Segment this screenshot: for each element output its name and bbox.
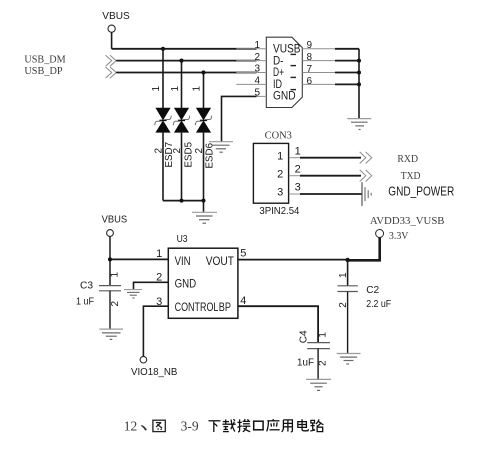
wire VOUT to AVDD33 — [238, 259, 348, 261]
capacitor C2 pin2 label — [338, 302, 349, 308]
pin 2 label ESD6 — [194, 148, 205, 154]
node VBUS top label — [102, 10, 130, 22]
label ESD5 — [183, 142, 194, 168]
svg-text:1: 1 — [338, 272, 349, 278]
svg-text:VIN: VIN — [175, 256, 191, 268]
wire pin8 to shield bus — [335, 60, 359, 62]
caption char dian (electric) — [298, 419, 309, 431]
regulator U3 label — [177, 234, 188, 245]
svg-text:3-9: 3-9 — [181, 419, 199, 434]
pin stub 5 left — [236, 95, 266, 97]
node VBUS bottom label — [102, 214, 128, 226]
label ESD7 — [164, 142, 175, 168]
pin number 4 — [254, 76, 260, 87]
svg-text:1: 1 — [295, 145, 301, 157]
wire CON3 pin3 GND_POWER — [289, 193, 362, 195]
pin number 1 — [254, 40, 260, 51]
svg-text:ESD5: ESD5 — [183, 142, 194, 168]
svg-text:VIO18_NB: VIO18_NB — [131, 366, 177, 378]
pin 2 label ESD7 — [154, 148, 165, 154]
junction dot VBUS/C3 — [108, 257, 112, 261]
label C3 — [80, 280, 93, 292]
svg-text:1: 1 — [170, 86, 181, 92]
svg-text:USB_DM: USB_DM — [24, 55, 66, 66]
pin number 3 — [254, 64, 260, 75]
pin name dash 6 — [291, 89, 297, 91]
wire ESD6 vertical top — [203, 73, 205, 109]
junction dot ESD6 bottom — [202, 199, 206, 203]
wire U3 CONTROL pin3 to VIO18_NB — [143, 306, 168, 356]
wire USB_DM to pin2 — [116, 60, 256, 62]
svg-text:2: 2 — [318, 360, 329, 366]
wire CON3 pin2 TXD — [289, 175, 361, 177]
net label VIO18_NB — [131, 366, 177, 378]
wire C2 top — [347, 260, 349, 286]
svg-text:BP: BP — [219, 302, 231, 314]
ground U3 GND — [124, 290, 142, 298]
svg-text:7: 7 — [307, 64, 313, 75]
svg-text:VBUS: VBUS — [102, 10, 130, 22]
pin stub 4 left — [236, 83, 266, 85]
CON3 pin number 2 — [295, 163, 301, 175]
svg-text:1: 1 — [192, 86, 203, 92]
pin name GND — [273, 91, 296, 103]
caption char jie (connect) — [237, 419, 250, 432]
node AVDD33 terminal circle — [376, 230, 384, 238]
wire ESD7 vertical top — [162, 49, 164, 108]
svg-text:1: 1 — [277, 151, 283, 163]
ground shield bus — [347, 119, 371, 130]
CON3 pin name 2 — [277, 169, 283, 181]
label C2 value 2.2 uF — [366, 298, 391, 310]
pin stub 1 left — [236, 48, 266, 50]
caption char ying (apply) — [267, 419, 280, 431]
pin stub 8 right — [302, 60, 336, 62]
port chevron USB_DM — [106, 55, 117, 66]
U3 pin name BP — [219, 302, 231, 314]
caption text 12, — [124, 419, 138, 434]
svg-text:ESD7: ESD7 — [164, 142, 175, 168]
caption char zai (carry) — [222, 419, 235, 431]
U3 pin number 2 — [156, 272, 162, 284]
wire ESD5 vertical bottom — [181, 133, 183, 201]
capacitor C3 pin2 label — [110, 301, 121, 307]
wire ESD common bottom horizontal — [163, 200, 204, 202]
pin number 2 — [254, 52, 260, 63]
wire VBUS vertical from terminal — [111, 32, 113, 49]
svg-text:1uF: 1uF — [297, 356, 314, 368]
junction dot VBUS / ESD7 — [161, 47, 165, 51]
capacitor C4 pin2 label — [318, 360, 329, 366]
svg-text:1: 1 — [151, 86, 162, 92]
svg-text:RXD: RXD — [397, 154, 418, 165]
connector CON3 label — [265, 131, 292, 142]
wire U3 GND pin2 — [134, 282, 169, 289]
ground C2 — [337, 354, 361, 365]
svg-text:3PIN2.54: 3PIN2.54 — [259, 205, 299, 217]
port chevron USB_DP — [106, 67, 117, 78]
svg-text:12: 12 — [124, 419, 138, 434]
capacitor C3 pin1 label — [109, 272, 120, 278]
svg-text:C4: C4 — [297, 330, 309, 343]
svg-text:1 uF: 1 uF — [76, 296, 94, 308]
wire VBUS horizontal to USB pin1 — [112, 48, 257, 50]
svg-text:U3: U3 — [177, 234, 188, 245]
caption ideographic comma — [141, 425, 147, 431]
capacitor C4 label rotated — [297, 330, 309, 343]
pin name D+ — [273, 67, 284, 79]
svg-text:D+: D+ — [273, 67, 284, 79]
wire C4 bottom — [317, 349, 319, 380]
wire ESD5 vertical top — [181, 61, 183, 108]
pin stub 9 right — [302, 48, 336, 50]
U3 pin number 1 — [156, 248, 162, 260]
svg-text:VUSB: VUSB — [273, 43, 301, 55]
svg-text:4: 4 — [240, 295, 246, 307]
port label RXD — [397, 154, 418, 165]
svg-text:9: 9 — [307, 40, 313, 51]
svg-text:1: 1 — [109, 272, 120, 278]
wire pin6 to shield bus — [335, 83, 359, 85]
U3 pin number 5 — [240, 248, 246, 260]
pin name D- — [273, 55, 284, 67]
pin 2 label ESD5 — [172, 148, 183, 154]
label C3 value 1 uF — [76, 296, 94, 308]
port USB_DM label — [24, 55, 66, 66]
svg-text:VOUT: VOUT — [206, 256, 234, 268]
junction dot C2 — [345, 258, 349, 262]
svg-text:CONTROL: CONTROL — [175, 302, 219, 314]
caption char yong (use) — [282, 420, 293, 432]
svg-text:6: 6 — [307, 76, 313, 87]
svg-text:1: 1 — [254, 40, 260, 51]
wire C2 bottom — [347, 292, 349, 354]
pin name ID — [273, 79, 282, 91]
pin 1 label ESD7 — [151, 86, 162, 92]
capacitor C4 plates — [307, 343, 330, 349]
wire ESD6 vertical bottom — [203, 133, 205, 212]
capacitor C2 plates — [337, 286, 357, 292]
svg-text:5: 5 — [240, 248, 246, 260]
U3 pin name CONTROL — [175, 302, 219, 314]
caption char xia (down) — [209, 421, 221, 432]
svg-text:C2: C2 — [366, 284, 379, 296]
capacitor C2 pin1 label — [338, 272, 349, 278]
port label TXD — [401, 171, 421, 182]
caption char lu (road) — [310, 419, 323, 431]
junction dot D- / ESD5 — [179, 59, 183, 63]
capacitor C3 plates — [99, 286, 121, 291]
pin number 5 — [254, 88, 260, 99]
ground ESD common — [192, 212, 217, 223]
svg-text:USB_DP: USB_DP — [24, 66, 62, 77]
pin name VUSB — [273, 43, 301, 55]
U3 pin name GND — [175, 279, 197, 291]
svg-text:2.2 uF: 2.2 uF — [366, 298, 391, 310]
pin name dash 7 — [291, 76, 297, 78]
regulator U3 box — [168, 248, 238, 318]
junction dot D+ / ESD6 — [201, 70, 205, 74]
pin name dash 9 — [291, 53, 297, 55]
svg-text:2: 2 — [110, 301, 121, 307]
pin number 8 — [307, 52, 313, 63]
wire USB_DP to pin3 — [116, 72, 256, 74]
wire VBUS bottom vertical — [109, 236, 111, 285]
wire shield bus vertical — [358, 49, 360, 119]
pin stub 6 right — [302, 83, 336, 85]
U3 pin number 3 — [156, 296, 162, 308]
diode ESD6 bidirectional TVS — [195, 108, 211, 133]
pin number 6 — [307, 76, 313, 87]
svg-text:CON3: CON3 — [265, 131, 292, 142]
pin stub 3 left — [236, 72, 266, 74]
CON3 pin number 3 — [295, 181, 301, 193]
connector USB J1 box — [266, 37, 302, 107]
junction dot bus pin8 — [357, 59, 361, 63]
wire ESD7 vertical bottom — [162, 133, 164, 201]
caption text 3-9 — [181, 419, 199, 434]
port chevron TXD — [360, 170, 372, 182]
wire CON3 pin1 RXD — [289, 157, 361, 159]
svg-text:C3: C3 — [80, 280, 93, 292]
svg-text:2: 2 — [254, 52, 260, 63]
wire pin9 to shield bus — [335, 48, 359, 50]
pin number 9 — [307, 40, 313, 51]
wire pin5 GND to ground — [222, 96, 257, 141]
U3 pin name VIN — [175, 256, 191, 268]
pin name dash 8 — [291, 65, 297, 67]
svg-text:GND: GND — [273, 91, 296, 103]
wire AVDD33 corner — [347, 237, 380, 260]
ground C3 — [100, 329, 124, 339]
port chevron RXD — [360, 152, 372, 164]
junction dot bus pin6 — [357, 82, 361, 86]
connector CON3 box — [253, 143, 288, 203]
U3 pin number 4 — [240, 295, 246, 307]
caption char kou (mouth) — [254, 421, 263, 430]
net label GND_POWER — [388, 184, 454, 199]
svg-text:AVDD33_VUSB: AVDD33_VUSB — [370, 215, 445, 227]
pin 1 label ESD6 — [192, 86, 203, 92]
capacitor C4 pin1 label — [318, 332, 329, 338]
diode ESD7 bidirectional TVS — [155, 108, 171, 133]
wire VIN horizontal — [110, 258, 168, 260]
svg-text:D-: D- — [273, 55, 284, 67]
port GND_POWER sideways ground — [362, 182, 371, 206]
svg-text:8: 8 — [307, 52, 313, 63]
caption char tu (figure) — [153, 420, 165, 431]
label ESD6 — [204, 143, 215, 169]
net label AVDD33_VUSB — [370, 215, 445, 227]
label C2 — [366, 284, 379, 296]
svg-text:GND: GND — [175, 279, 197, 291]
diode ESD5 bidirectional TVS — [173, 108, 189, 133]
pin stub 7 right — [302, 72, 336, 74]
node VIO18_NB terminal circle — [140, 356, 147, 363]
ground C4 — [306, 379, 331, 390]
svg-text:3: 3 — [254, 64, 260, 75]
svg-text:1: 1 — [156, 248, 162, 260]
label 3.3V — [389, 231, 409, 242]
pin 1 label ESD5 — [170, 86, 181, 92]
U3 pin name VOUT — [206, 256, 234, 268]
svg-text:ESD6: ESD6 — [204, 143, 215, 169]
svg-text:TXD: TXD — [401, 171, 421, 182]
CON3 pin number 1 — [295, 145, 301, 157]
pin number 7 — [307, 64, 313, 75]
node VBUS bottom terminal circle — [107, 230, 114, 237]
svg-text:3: 3 — [277, 186, 283, 198]
port USB_DP label — [24, 66, 62, 77]
junction dot bus pin7 — [357, 71, 361, 75]
node VBUS top terminal circle — [108, 25, 115, 32]
svg-text:VBUS: VBUS — [102, 214, 128, 226]
wire pin7 to shield bus — [335, 72, 359, 74]
junction dot ESD5 bottom — [180, 199, 184, 203]
wire U3 BP pin4 to C4 — [238, 306, 318, 342]
svg-text:2: 2 — [295, 163, 301, 175]
wire C3 bottom — [109, 291, 111, 329]
svg-text:1: 1 — [318, 332, 329, 338]
svg-text:3.3V: 3.3V — [389, 231, 409, 242]
svg-text:4: 4 — [254, 76, 260, 87]
svg-text:ID: ID — [273, 79, 282, 91]
svg-text:3: 3 — [295, 181, 301, 193]
pin stub 2 left — [236, 60, 266, 62]
label 3PIN2.54 — [259, 205, 299, 217]
CON3 pin name 3 — [277, 186, 283, 198]
label C4 value 1uF — [297, 356, 314, 368]
svg-text:2: 2 — [277, 169, 283, 181]
CON3 pin name 1 — [277, 151, 283, 163]
svg-text:GND_POWER: GND_POWER — [388, 184, 454, 199]
ground at USB pin5 — [209, 142, 233, 153]
